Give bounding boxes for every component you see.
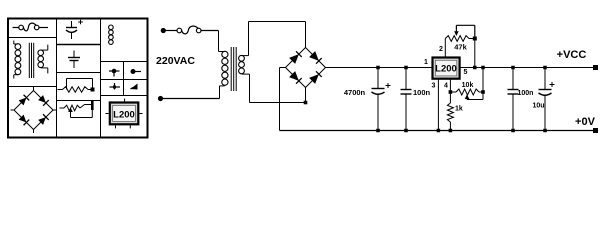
svg-text:L200: L200 <box>435 64 457 75</box>
svg-text:3: 3 <box>431 82 435 89</box>
svg-text:1: 1 <box>424 59 428 66</box>
svg-text:+VCC: +VCC <box>557 49 587 61</box>
svg-text:1k: 1k <box>455 106 463 113</box>
svg-text:10u: 10u <box>532 103 544 110</box>
svg-text:47k: 47k <box>454 43 467 52</box>
svg-text:4: 4 <box>444 82 448 89</box>
svg-text:100n: 100n <box>518 90 534 97</box>
svg-text:L200: L200 <box>113 109 135 120</box>
svg-text:220VAC: 220VAC <box>156 55 195 67</box>
svg-text:10k: 10k <box>462 82 474 89</box>
svg-text:5: 5 <box>464 69 468 76</box>
svg-text:4700n: 4700n <box>344 88 366 97</box>
svg-text:2: 2 <box>439 46 443 53</box>
svg-text:100n: 100n <box>413 88 431 97</box>
svg-text:+0V: +0V <box>575 116 596 128</box>
